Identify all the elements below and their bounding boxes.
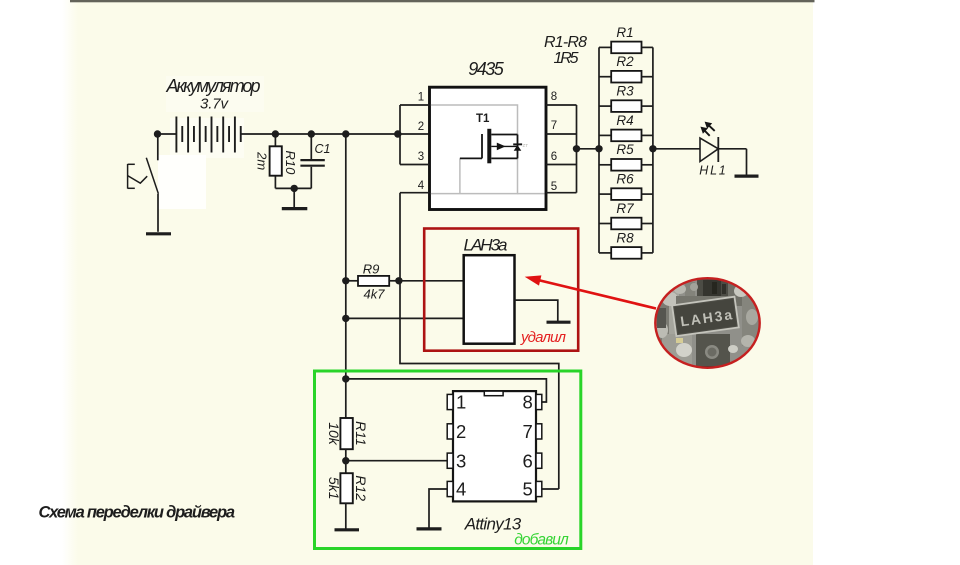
IC U2 Attiny13 body (453, 391, 536, 501)
svg-text:R4: R4 (616, 113, 633, 128)
wire: 9435 output to resistor bank (577, 148, 600, 150)
red removed-part frame (424, 229, 578, 351)
red callout arrow (525, 275, 656, 308)
junction dot main rail down (342, 130, 349, 137)
svg-text:R10: R10 (283, 150, 298, 175)
svg-text:2: 2 (456, 421, 466, 442)
ground under R10/C1 (282, 207, 308, 210)
svg-text:R7: R7 (616, 201, 634, 216)
svg-text:R5: R5 (616, 142, 634, 157)
svg-text:10k: 10k (326, 422, 342, 446)
svg-text:HL1: HL1 (699, 163, 726, 177)
wire: main supply rail from battery to 9435 pin 2 (241, 133, 430, 135)
schematic yellow background (62, 0, 78, 565)
svg-text:6: 6 (523, 450, 533, 471)
internal lead-frame outline (gray) (431, 105, 545, 194)
wires: 9435 left pin leads and bus (400, 105, 430, 193)
svg-text:5: 5 (551, 181, 557, 193)
transistor T1 (p-MOSFET inside 9435) (460, 129, 518, 164)
junction dot bank right rail (649, 145, 656, 152)
svg-text:5k1: 5k1 (326, 477, 342, 500)
svg-text:6: 6 (551, 151, 557, 163)
top border line (70, 0, 815, 2)
wire: 9435 pin4 drop line (400, 193, 559, 489)
wire: main vertical rail upper (345, 134, 347, 418)
ground under switch (146, 232, 171, 235)
Attiny pin stubs left (447, 394, 453, 496)
resistor R2 (599, 71, 653, 83)
svg-text:Схема переделки драйвера: Схема переделки драйвера (39, 504, 236, 522)
svg-text:LAH3a: LAH3a (464, 235, 508, 254)
wire: R9 node into LAH3a input 1 (399, 280, 464, 282)
LED HL1 (700, 137, 747, 175)
svg-text:C1: C1 (315, 142, 331, 156)
resistor R10 (270, 134, 282, 188)
body diode of T1 (513, 143, 522, 150)
junction dot R9 left (342, 277, 349, 284)
junction dot battery+ / R10 (272, 130, 279, 137)
svg-text:удалил: удалил (520, 329, 567, 346)
svg-text:1R5: 1R5 (554, 50, 579, 67)
resistor bank rails (599, 47, 653, 253)
svg-text:R9: R9 (363, 261, 380, 276)
svg-text:R8: R8 (616, 230, 634, 245)
LED emission arrows (700, 122, 714, 136)
junction dot LAH3a input 2 (342, 315, 349, 322)
node A junction dot battery left (154, 130, 161, 137)
wire: Attiny pin 5 lead (542, 488, 559, 490)
wire: R10/C1 bottom joining (275, 187, 311, 189)
svg-text:8: 8 (523, 392, 533, 413)
wire: switch lower to ground (157, 194, 159, 232)
svg-text:T1: T1 (476, 113, 490, 125)
chip in photo (672, 297, 739, 336)
wire: Attiny pin 4 to ground (429, 489, 447, 528)
wires: 9435 right pin leads and bus (546, 105, 577, 193)
ground under Attiny pin 4 (417, 527, 442, 530)
wire: bank to LED (653, 148, 700, 150)
junction dot R9 right on pin4 line (395, 277, 402, 284)
svg-text:R1-R8: R1-R8 (544, 34, 587, 51)
svg-text:2: 2 (418, 121, 424, 133)
ground under LED (735, 175, 759, 178)
resistor R6 (599, 188, 653, 200)
junction dot R11/R12 divider (342, 457, 349, 464)
svg-text:R3: R3 (616, 84, 634, 99)
wire: divider to Attiny pin 3 (346, 460, 447, 462)
IC LAH3a body (464, 255, 515, 344)
wire: LAH3a output (515, 300, 558, 321)
junction dot bank left rail (595, 145, 602, 152)
svg-text:R2: R2 (616, 54, 634, 69)
resistor R11 (340, 418, 352, 473)
svg-text:7: 7 (523, 421, 533, 442)
junction dot green vcc (342, 375, 349, 382)
svg-text:1: 1 (418, 92, 424, 104)
resistor R12 (340, 473, 352, 529)
IC U1 9435 body (430, 87, 547, 209)
junction dot R10-C1 ground node (291, 185, 298, 192)
svg-text:3.7v: 3.7v (200, 96, 230, 113)
resistor R7 (599, 218, 653, 230)
switch SA1 (128, 158, 159, 194)
svg-text:4k7: 4k7 (364, 287, 386, 302)
svg-text:4: 4 (456, 479, 466, 500)
svg-text:добавил: добавил (514, 532, 569, 549)
ground under R12 (335, 528, 360, 531)
svg-text:R11: R11 (353, 421, 369, 446)
svg-text:R1: R1 (616, 25, 633, 40)
junction dot 9435 pin2 bus (394, 130, 401, 137)
ground under LAH3a (547, 321, 571, 324)
orientation notch (484, 391, 503, 396)
svg-text:4: 4 (418, 180, 425, 192)
wire: VCC to Attiny pin 8 (346, 379, 547, 402)
svg-text:R12: R12 (353, 475, 369, 501)
svg-text:Аккумулятор: Аккумулятор (166, 76, 261, 96)
resistor R3 (599, 100, 653, 112)
svg-text:9435: 9435 (468, 59, 504, 79)
resistor R4 (599, 130, 653, 142)
photo inset: chip photograph in circle (654, 277, 762, 372)
svg-text:8: 8 (551, 91, 557, 103)
wire: battery left lead (157, 133, 176, 135)
junction dot C1 top (308, 130, 315, 137)
faint white patches (photo artifacts) (158, 76, 264, 209)
svg-text:7: 7 (551, 120, 557, 132)
svg-text:3: 3 (418, 151, 424, 163)
svg-text:ZT: ZT (523, 143, 529, 148)
junction dot output bus (573, 145, 580, 152)
green added-part frame (315, 371, 581, 549)
battery GB1 (176, 117, 240, 153)
wire: ground stem (293, 188, 295, 207)
svg-text:1: 1 (456, 392, 466, 413)
Attiny pin stubs right (536, 394, 542, 496)
svg-text:Attiny13: Attiny13 (464, 514, 522, 533)
capacitor C1 (300, 134, 324, 188)
svg-text:R6: R6 (616, 172, 634, 187)
resistor R5 (599, 159, 653, 171)
svg-text:5: 5 (523, 479, 533, 500)
wire: switch upper from node A (157, 134, 159, 160)
wire: LAH3a input 2 (346, 317, 464, 319)
resistor R1 (599, 42, 653, 54)
svg-text:2m: 2m (255, 151, 270, 170)
resistor R8 (599, 247, 653, 259)
resistor R9 (346, 276, 399, 286)
svg-text:3: 3 (456, 450, 466, 471)
